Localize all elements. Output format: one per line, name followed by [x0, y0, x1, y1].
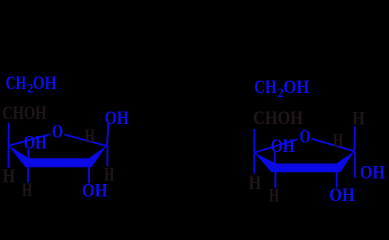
svg-text:CHOH: CHOH — [253, 108, 303, 129]
bond C1-OH (up) — [107, 123, 108, 145]
ring front wedge C4-C3-C2-C1 — [9, 145, 107, 167]
svg-text:H: H — [333, 131, 343, 152]
ring front wedge C4-C3-C2-C1 — [254, 151, 354, 172]
svg-text:H: H — [352, 109, 365, 130]
ring back edge C4-O — [254, 139, 297, 152]
svg-text:OH: OH — [329, 185, 355, 206]
svg-text:H: H — [104, 165, 114, 186]
svg-text:H: H — [249, 173, 262, 194]
bond C3-OH (up, hidden behind wedge) — [274, 152, 276, 165]
bond C4-H (down, left vertex) — [8, 146, 10, 168]
bond C2-OH (down) — [88, 167, 90, 183]
ring back edge O-C1 — [65, 135, 107, 146]
svg-text:O: O — [52, 122, 63, 143]
ring back edge C4-O — [9, 134, 51, 146]
svg-text:CHOH: CHOH — [2, 103, 46, 124]
svg-text:OH: OH — [360, 163, 385, 184]
bond C1-H (down) — [106, 146, 108, 166]
svg-text:OH: OH — [24, 133, 47, 154]
ring back edge O-C1 — [312, 139, 355, 152]
svg-text:H: H — [3, 166, 16, 187]
bond C4-H (down, left vertex) — [253, 153, 255, 174]
bond C1-OH (down right) — [354, 152, 356, 178]
svg-text:OH: OH — [105, 108, 129, 129]
bond C5-C4 (vertical into ring, left) — [253, 129, 255, 153]
svg-text:H: H — [269, 186, 279, 207]
bond C3-H (down) — [27, 167, 29, 182]
bond C5-C4 (vertical into ring, left) — [8, 123, 10, 146]
svg-text:O: O — [300, 127, 311, 148]
svg-text:H: H — [22, 180, 32, 201]
bond C3-H (down) — [274, 172, 276, 188]
bond C1-H (up, dark label) — [354, 126, 357, 151]
svg-text:H: H — [85, 126, 95, 147]
svg-text:OH: OH — [271, 136, 295, 157]
bond C2-OH (down) — [336, 172, 338, 187]
bond C3-OH (up, hidden behind wedge) — [27, 149, 29, 160]
